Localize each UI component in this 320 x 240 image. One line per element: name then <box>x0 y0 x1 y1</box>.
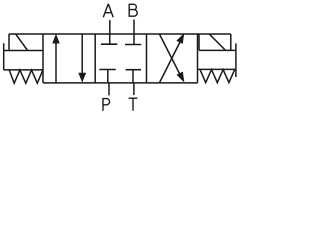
box3 crossed arrow 2 head <box>176 33 184 44</box>
port label B <box>129 4 137 17</box>
box3 crossed arrow 1 line <box>159 34 181 78</box>
box1 flow arrow up (shaft) <box>55 43 57 83</box>
solenoid Y2 diagonal <box>209 34 225 50</box>
port label P <box>103 98 110 111</box>
box1 flow arrow down (head) <box>78 73 86 83</box>
port label A <box>103 4 113 17</box>
valve position divider 2 <box>146 34 148 83</box>
box2 blocked port P stub <box>107 70 109 83</box>
box3 crossed arrow 1 head <box>177 72 185 83</box>
box1 flow arrow down (shaft) <box>81 34 83 73</box>
box2 blocked port B stub <box>133 34 135 45</box>
port label T <box>129 98 138 111</box>
box2 blocked port P bar <box>99 69 116 71</box>
solenoid Y1 left coil box <box>4 34 43 51</box>
wire port T line <box>133 83 135 95</box>
solenoid Y2 pin <box>235 43 237 77</box>
solenoid Y1 diagonal <box>16 34 28 50</box>
spring right rail <box>198 68 236 70</box>
valve body outline <box>43 34 198 83</box>
box2 blocked port T stub <box>132 70 134 83</box>
spring left zigzag <box>9 70 43 83</box>
box2 blocked port T bar <box>126 69 141 71</box>
wire port B line <box>133 20 135 34</box>
solenoid Y1 pin <box>3 43 5 70</box>
solenoid Y2 right coil box <box>199 34 236 50</box>
valve top rail <box>9 33 231 35</box>
box3 crossed arrow 2 line <box>159 39 181 83</box>
box1 flow arrow up (head) <box>52 34 59 44</box>
wire port A line <box>109 20 111 34</box>
spring left rail <box>4 69 43 71</box>
box2 blocked port B bar <box>125 44 141 46</box>
spring right zigzag <box>200 70 235 83</box>
valve position divider 1 <box>94 34 96 83</box>
box2 blocked port A stub <box>109 34 111 44</box>
box2 blocked port A bar <box>101 43 117 45</box>
wire port P line <box>108 83 110 96</box>
